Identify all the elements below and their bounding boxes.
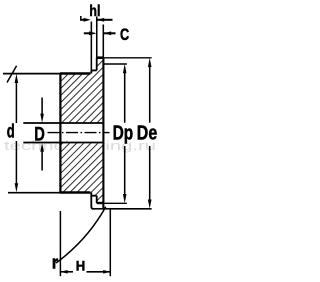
oblique tick d: [7, 66, 17, 83]
h dimension: [81, 19, 86, 21]
bore bottom line: [23, 142, 103, 144]
step horizontal top: [91, 69, 96, 71]
Dp top extension: [104, 63, 127, 65]
dimension D vertical: [41, 98, 43, 115]
r arc: [56, 207, 106, 263]
step vertical bottom outline with fillet: [91, 193, 93, 209]
De top extension: [104, 57, 152, 59]
hub left face: [59, 74, 61, 193]
plate left face lower: [96, 196, 98, 203]
svg-text:d: d: [7, 121, 15, 143]
step vertical top: [90, 70, 92, 73]
C extension vertical (plate right ext up): [102, 25, 104, 58]
plate left face upper: [96, 58, 98, 71]
H left extension: [59, 211, 61, 276]
Dp bottom extension: [104, 202, 127, 204]
dimension d vertical line: [15, 79, 17, 123]
hatched hub+plate section lower half: [61, 143, 104, 204]
centerline: [48, 132, 110, 134]
d top extension line: [3, 73, 61, 75]
d arrow down: [15, 183, 19, 192]
plate bottom edge: [97, 202, 104, 204]
plate top edge: [97, 56, 104, 59]
hub top edge: [60, 72, 91, 74]
hub bottom edge: [60, 191, 91, 193]
svg-text:C: C: [120, 26, 129, 44]
hatched hub+plate section upper half: [61, 58, 104, 123]
plate right face: [102, 58, 104, 209]
svg-text:H: H: [76, 257, 86, 273]
H dimension: [60, 271, 73, 273]
d arrow up: [15, 74, 19, 83]
h extension verticals: [90, 22, 92, 71]
tooth tip bottom line + De bottom extension: [93, 208, 152, 210]
svg-text:hl: hl: [89, 3, 100, 20]
svg-text:D: D: [34, 123, 45, 145]
Dp dimension vertical: [124, 73, 126, 123]
step horizontal bottom: [91, 195, 96, 197]
H right extension: [109, 209, 111, 276]
C dimension: [84, 32, 90, 34]
svg-text:De: De: [137, 123, 157, 145]
bore top line: [23, 122, 103, 124]
svg-text:Dp: Dp: [113, 123, 134, 145]
De dimension vertical: [149, 67, 151, 123]
d bottom extension line: [8, 192, 61, 194]
svg-text:r: r: [52, 252, 58, 272]
